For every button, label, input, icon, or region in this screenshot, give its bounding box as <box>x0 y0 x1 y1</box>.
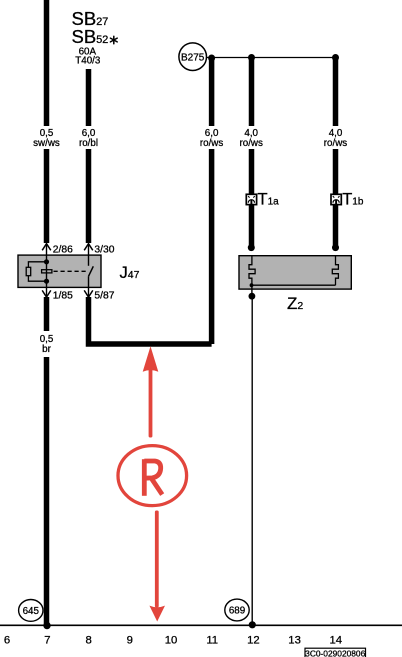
relay armature <box>42 270 52 273</box>
svg-text:14: 14 <box>330 635 343 647</box>
Z2 internal bus <box>252 284 336 286</box>
svg-text:1/85: 1/85 <box>53 291 73 302</box>
component Z2 body (heater element) <box>239 256 351 289</box>
red letter R <box>144 459 162 496</box>
red direction arrow down <box>149 511 165 622</box>
svg-text:5/87: 5/87 <box>94 291 114 302</box>
wire W3 long segment down to corner <box>209 149 215 344</box>
Z2 output dot <box>249 293 256 300</box>
relay coil <box>26 267 31 275</box>
wire W1 middle segment into relay <box>44 149 50 243</box>
wire W3 top segment (6,0 ro/ws) <box>209 58 215 126</box>
relay switch output wire <box>88 276 90 287</box>
svg-text:ro/ws: ro/ws <box>324 138 348 149</box>
junction dot coil top <box>44 259 49 264</box>
wire W4 segment below T1a <box>249 205 255 246</box>
label 60A fuse rating <box>79 47 97 58</box>
mechanical link dashed <box>54 270 89 272</box>
relay J47 body <box>18 255 101 287</box>
svg-text:7: 7 <box>44 635 50 647</box>
label SB52 <box>72 26 109 47</box>
wire W2 top segment (6,0 ro/bl) <box>86 69 92 126</box>
terminal arrow 5/87 <box>84 287 93 297</box>
relay switch blade <box>89 266 94 276</box>
wire W1 segment below relay <box>44 297 50 331</box>
junction dot W6 to rail <box>249 621 256 628</box>
wire end dot at Z2 left terminal <box>248 244 255 251</box>
svg-text:J47: J47 <box>120 264 140 282</box>
svg-text:3/30: 3/30 <box>94 244 114 255</box>
svg-text:T1a: T1a <box>258 190 280 208</box>
junction dot coil bottom <box>44 279 49 284</box>
wire end dot at Z2 right terminal <box>332 244 339 251</box>
Z2 right heating element <box>332 256 338 286</box>
red R circle <box>118 446 187 506</box>
Z2 left heating element <box>249 256 255 286</box>
node B275 (positive connection) <box>179 43 207 71</box>
svg-text:689: 689 <box>229 606 245 617</box>
label T1b <box>342 190 364 208</box>
wire W2 middle segment into relay <box>86 149 92 243</box>
svg-text:6: 6 <box>4 635 10 647</box>
wire W5 top segment (4,0 ro/ws right) <box>333 58 339 127</box>
label J47 <box>120 264 140 282</box>
wire W6 thin (Z2 to ground 689) <box>251 298 253 624</box>
grid numbers track row <box>4 635 342 647</box>
terminal arrow 3/30 <box>84 244 93 256</box>
terminal arrow 1/85 <box>42 287 51 297</box>
svg-text:sw/ws: sw/ws <box>33 138 60 149</box>
diagram number box 3C0-029020806 <box>305 648 366 657</box>
svg-text:10: 10 <box>165 635 178 647</box>
svg-text:3C0-029020806: 3C0-029020806 <box>305 649 365 657</box>
wire W4 segment to connector T1a <box>249 149 255 194</box>
label T40/3 connector <box>75 56 101 67</box>
svg-text:T1b: T1b <box>342 190 364 208</box>
junction dot at B275 output <box>208 55 215 62</box>
junction dot bus to T1b branch <box>332 54 339 61</box>
svg-text:2/86: 2/86 <box>53 244 73 255</box>
svg-text:ro/bl: ro/bl <box>79 138 98 149</box>
wire W2 output elbow to W3 <box>89 297 212 344</box>
svg-text:9: 9 <box>127 635 133 647</box>
ground rail <box>0 624 402 626</box>
red direction arrow up <box>143 346 159 437</box>
wire W1 bottom segment to ground <box>44 357 50 624</box>
svg-text:ro/ws: ro/ws <box>200 138 224 149</box>
junction dot bus to T1a branch <box>248 54 255 61</box>
wire label 6,0 ro/bl <box>79 128 98 149</box>
relay internal wire 86-85 <box>46 255 48 287</box>
wire bus from B275 <box>207 57 336 59</box>
Z2 output lead <box>251 285 253 298</box>
svg-text:13: 13 <box>288 635 301 647</box>
svg-text:Z2: Z2 <box>287 294 303 313</box>
svg-text:645: 645 <box>23 606 40 617</box>
pin label 2/86 <box>53 244 73 255</box>
svg-text:B275: B275 <box>181 52 205 63</box>
pin label 3/30 <box>94 244 114 255</box>
svg-text:SB52: SB52 <box>72 26 109 47</box>
label T1a <box>258 190 280 208</box>
wire W4 top segment (4,0 ro/ws left) <box>249 58 255 127</box>
ground node 689 <box>225 599 249 621</box>
wire W5 segment below T1b <box>333 205 339 246</box>
terminal arrow 2/86 <box>42 244 51 256</box>
svg-text:11: 11 <box>206 635 218 647</box>
wire W5 segment to connector T1b <box>333 149 339 194</box>
connector T1b symbol <box>331 194 341 204</box>
Z2 internal junction dot <box>250 283 254 287</box>
wire label 0,5 br <box>40 334 54 355</box>
relay switch fixed contact <box>88 255 90 266</box>
svg-text:ro/ws: ro/ws <box>239 138 263 149</box>
svg-text:8: 8 <box>85 635 91 647</box>
wire W1 top segment (0,5 sw/ws from fuse) <box>44 0 50 126</box>
asterisk footnote mark <box>110 36 117 43</box>
relay coil branch <box>28 262 46 281</box>
wire label 4,0 ro/ws right <box>324 128 348 149</box>
svg-text:12: 12 <box>247 635 260 647</box>
wire label 4,0 ro/ws left <box>239 128 263 149</box>
label SB27 <box>72 8 109 29</box>
wire label 0,5 sw/ws <box>33 128 60 149</box>
label Z2 <box>287 294 303 313</box>
wire label 6,0 ro/ws <box>200 128 224 149</box>
pin label 1/85 <box>53 291 73 302</box>
svg-text:br: br <box>42 344 51 355</box>
svg-text:T40/3: T40/3 <box>75 56 101 67</box>
pin label 5/87 <box>94 291 114 302</box>
junction dot W1 to rail <box>43 622 50 629</box>
ground node 645 <box>19 600 43 622</box>
connector T1a symbol <box>246 194 256 204</box>
